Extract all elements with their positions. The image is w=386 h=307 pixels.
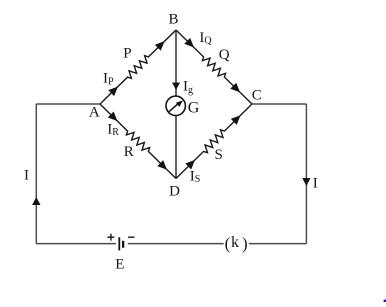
svg-text:G: G — [188, 100, 200, 117]
battery cell short plate (-) — [122, 241, 124, 248]
wire: galvanometer branch B to G — [175, 30, 177, 96]
svg-text:S: S — [215, 147, 223, 163]
wire: left vertical rail — [35, 104, 37, 244]
arrow I_R on arm A-D — [108, 112, 118, 122]
wire: right horizontal to C — [252, 103, 306, 105]
battery + sign — [107, 234, 114, 241]
battery - sign — [128, 236, 134, 238]
blue corner mark — [379, 295, 386, 307]
svg-text:I: I — [313, 176, 318, 192]
svg-text:I: I — [24, 168, 29, 184]
svg-text:k: k — [231, 234, 239, 251]
svg-text:): ) — [242, 234, 248, 253]
arrow I_g down (galvanometer branch) — [172, 83, 180, 91]
arrow near B on arm A-B — [155, 41, 165, 51]
resistor S (arm D-C) — [176, 104, 252, 179]
wire: battery to key — [128, 243, 224, 245]
arrow I_P on arm A-B — [108, 87, 118, 97]
arrow I_Q on arm B-C — [184, 38, 194, 48]
svg-text:A: A — [89, 105, 100, 121]
arrow current I up (left rail) — [32, 197, 40, 205]
resistor R (arm A-D) — [100, 104, 176, 179]
arrow I_S on arm D-C — [185, 160, 195, 170]
wire: galvanometer branch G to D — [175, 116, 177, 179]
galvanometer needle — [169, 103, 180, 112]
resistor Q (arm B-C) — [176, 30, 252, 104]
battery cell long plate (+) — [118, 237, 120, 250]
svg-text:(: ( — [225, 234, 231, 253]
svg-text:C: C — [252, 88, 262, 104]
arrow near C on arm B-C — [230, 83, 240, 93]
resistor P (arm A-B) — [100, 30, 176, 104]
wire: bottom left to battery — [36, 243, 116, 245]
wire: right vertical rail — [305, 104, 307, 244]
svg-text:R: R — [124, 144, 134, 160]
svg-text:P: P — [123, 46, 131, 62]
arrow current I down (right rail) — [302, 178, 310, 186]
galvanometer G circle — [166, 96, 185, 115]
svg-text:Q: Q — [219, 47, 230, 63]
svg-text:D: D — [169, 184, 180, 200]
svg-text:E: E — [115, 257, 124, 273]
arrow near C on arm D-C — [231, 115, 241, 125]
svg-text:B: B — [168, 12, 178, 28]
wire: left horizontal A to left rail — [36, 103, 100, 105]
arrow near D on arm A-D — [157, 160, 167, 170]
wire: key to right corner — [249, 243, 307, 245]
